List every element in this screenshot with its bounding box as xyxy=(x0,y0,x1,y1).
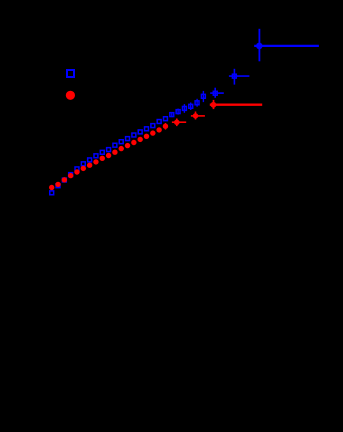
red special point R1: filled circle with error bars xyxy=(172,119,186,127)
blue special point B3: filled circle with long asymmetric error bars xyxy=(254,29,319,62)
legend: red filled circle marker xyxy=(66,91,75,100)
red series small vertical error bar on last point xyxy=(165,123,167,130)
blue special point B1: open square with error bars xyxy=(210,88,224,98)
blue series vertical error bars (bright-end points) xyxy=(172,91,204,117)
blue series: open square data points xyxy=(50,94,206,194)
blue special point B2: open square with error bars xyxy=(229,69,250,85)
red series: filled circle data points xyxy=(49,124,168,191)
legend: blue open square marker xyxy=(67,70,74,77)
red special point R2: filled circle with error bars xyxy=(191,112,205,120)
red special point R3: filled circle with long right error bar xyxy=(210,100,262,109)
